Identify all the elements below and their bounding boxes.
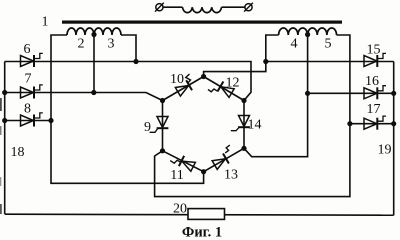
thyristor 8 bbox=[21, 113, 43, 127]
wire primary left lead bbox=[163, 6, 183, 8]
svg-text:6: 6 bbox=[24, 42, 31, 57]
node hexagon top bbox=[201, 74, 206, 79]
wire load line bottom bbox=[5, 214, 394, 215]
wire anode bus left (net 18) bbox=[4, 62, 6, 214]
svg-text:5: 5 bbox=[325, 37, 332, 52]
svg-text:8: 8 bbox=[24, 102, 31, 117]
svg-text:7: 7 bbox=[25, 72, 32, 87]
thyristor 14 bbox=[231, 116, 250, 131]
node hexagon UL bbox=[160, 98, 165, 103]
wire winding5 right end to row17 and hexagon LL vertex bbox=[155, 35, 350, 197]
transformer core 1 bbox=[62, 21, 342, 24]
thyristor 15 bbox=[364, 53, 386, 67]
node tap row7 bbox=[91, 90, 96, 95]
node winding2-3 tap bbox=[91, 32, 96, 37]
svg-text:1: 1 bbox=[42, 15, 49, 30]
node bus19 row17 bbox=[391, 121, 396, 126]
wire row 15 bbox=[266, 61, 394, 63]
wire winding4-5 centre tap to row16 and hexagon LR vertex bbox=[244, 35, 308, 157]
thyristor 12 bbox=[208, 81, 235, 98]
thyristor 7 bbox=[21, 85, 43, 99]
svg-text:4: 4 bbox=[291, 37, 298, 52]
primary terminal left bbox=[155, 3, 164, 12]
thyristor 17 bbox=[364, 116, 386, 130]
node winding4-5 tap bbox=[305, 32, 310, 37]
resistor 20 (load) bbox=[188, 209, 225, 220]
hexagon edge B-LR bbox=[204, 148, 244, 171]
node winding5 end row17 bbox=[347, 121, 352, 126]
svg-text:12: 12 bbox=[226, 76, 240, 91]
wire primary right lead bbox=[222, 6, 246, 8]
wire winding4 left end to row15 and hexagon top vertex bbox=[204, 35, 279, 77]
svg-text:17: 17 bbox=[367, 102, 381, 117]
wire row 17 bbox=[350, 123, 394, 125]
node winding4 end / row6 bbox=[263, 59, 268, 64]
svg-text:Фиг. 1: Фиг. 1 bbox=[182, 225, 222, 240]
node hexagon UR bbox=[241, 98, 246, 103]
winding 5 coil bbox=[308, 28, 337, 35]
svg-text:3: 3 bbox=[108, 37, 115, 52]
thyristor 13 bbox=[212, 145, 230, 170]
thyristor 11 bbox=[170, 156, 196, 172]
wire winding2-3 centre tap bbox=[93, 35, 95, 93]
svg-text:16: 16 bbox=[365, 74, 379, 89]
hexagon edge UR-LR bbox=[243, 101, 245, 149]
svg-text:2: 2 bbox=[78, 37, 85, 52]
wire row 6 to hexagon UR bbox=[5, 62, 251, 101]
wire winding2 left end down to row8 and hexagon bottom vertex bbox=[51, 35, 204, 183]
wire row 16 bbox=[308, 92, 394, 94]
wire winding3 right end to row6 bbox=[121, 35, 136, 62]
node winding3 end / row6 bbox=[133, 59, 138, 64]
svg-text:11: 11 bbox=[170, 168, 183, 183]
node hexagon LR bbox=[241, 146, 246, 151]
node bus19 row16 bbox=[391, 91, 396, 96]
node tap row16 bbox=[305, 91, 310, 96]
wire row 8 bbox=[5, 120, 51, 122]
node hexagon bottom bbox=[201, 169, 206, 174]
winding 2 coil bbox=[67, 28, 94, 35]
node row8 end bbox=[48, 118, 53, 123]
winding 4 coil bbox=[279, 28, 308, 35]
svg-text:19: 19 bbox=[378, 143, 392, 158]
wire row 7 to hexagon UL bbox=[5, 93, 163, 101]
hexagon edge top-UR bbox=[204, 77, 244, 101]
svg-text:15: 15 bbox=[367, 43, 381, 58]
svg-text:10: 10 bbox=[170, 72, 184, 87]
svg-text:18: 18 bbox=[11, 145, 25, 160]
node hexagon LL bbox=[160, 148, 165, 153]
scan artifacts left edge bbox=[0, 98, 2, 214]
wire cathode bus right (net 19) bbox=[393, 62, 395, 216]
node bus18 row8 bbox=[2, 118, 7, 123]
thyristor 10 bbox=[175, 74, 192, 97]
svg-text:20: 20 bbox=[173, 202, 187, 217]
thyristor 16 bbox=[364, 86, 386, 100]
hexagon edge LL-B bbox=[163, 151, 204, 172]
thyristor 9 bbox=[150, 117, 169, 133]
svg-text:9: 9 bbox=[144, 120, 151, 135]
hexagon edge UL-top (node wires) bbox=[163, 77, 204, 101]
primary winding coil bbox=[183, 7, 222, 12]
hexagon edge UL-LL bbox=[162, 101, 164, 151]
svg-text:13: 13 bbox=[224, 168, 238, 183]
node bus18 row7 bbox=[2, 90, 7, 95]
primary terminal right bbox=[244, 3, 253, 12]
winding 3 coil bbox=[94, 28, 121, 35]
svg-text:14: 14 bbox=[248, 118, 262, 133]
thyristor 6 bbox=[21, 53, 43, 67]
